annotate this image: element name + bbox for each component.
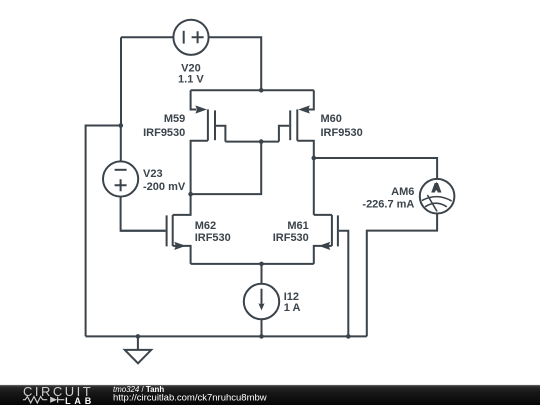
node V23 top junction [119,123,124,128]
svg-text:V23: V23 [143,168,163,180]
svg-text:AM6: AM6 [391,186,414,198]
wire source bus [191,263,314,265]
svg-text:1.1 V: 1.1 V [178,73,204,85]
voltage source V23 [103,161,138,196]
node I12 ground junction [259,334,264,339]
wire ground rail [86,335,367,337]
wire gate bus M59-M60 [225,141,279,143]
ground [125,336,151,363]
wire V23 positive to M62 gate [121,197,166,231]
ammeter AM6 [420,179,455,214]
svg-text:IRF9530: IRF9530 [143,127,185,139]
wire V20 negative lead [121,36,173,38]
wire left branch to ground rail [86,126,121,337]
logo resistor-diode icon [23,397,64,403]
svg-text:http://circuitlab.com/ck7nruhc: http://circuitlab.com/ck7nruhcu8mbw [113,393,267,404]
svg-text:IRF530: IRF530 [273,232,309,244]
transistor M60 [279,90,314,215]
wire top rail [191,89,314,91]
svg-text:1 A: 1 A [284,302,301,314]
node ground symbol junction [136,334,141,339]
wire V20 positive lead to top rail [209,37,262,90]
svg-text:M61: M61 [287,220,308,232]
footer bar [0,385,540,405]
wire to ammeter [314,158,437,179]
wire V20 negative down [120,37,122,125]
node gate bus junction [259,139,264,144]
node source bus junction [259,262,264,267]
transistor M61 [314,215,349,337]
transistor M59 [191,90,226,194]
svg-text:M60: M60 [321,113,342,125]
voltage source V20 [173,20,208,55]
svg-text:A: A [432,183,440,195]
transistor M62 [121,194,191,264]
svg-text:M59: M59 [164,113,185,125]
wire junction to V23 [120,126,122,162]
svg-text:M62: M62 [195,220,216,232]
node mirror node junction [188,192,193,197]
wire gate bus to mirror node [191,142,262,195]
node top rail junction [259,88,264,93]
node M61 gate ground junction [346,334,351,339]
wire ammeter to ground rail [367,214,437,337]
svg-text:IRF530: IRF530 [195,232,231,244]
svg-text:-200 mV: -200 mV [143,181,186,193]
svg-text:-226.7 mA: -226.7 mA [362,199,414,211]
current source I12 [244,264,279,337]
svg-text:LAB: LAB [65,396,95,405]
svg-text:IRF9530: IRF9530 [321,127,363,139]
node M60 drain junction [312,156,317,161]
